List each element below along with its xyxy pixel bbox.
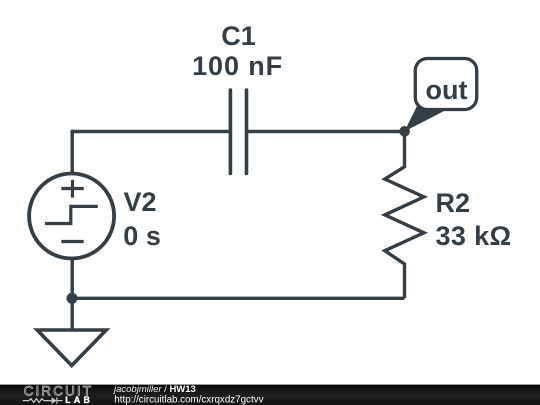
svg-text:V2: V2: [124, 187, 157, 217]
svg-text:out: out: [426, 75, 468, 105]
svg-text:R2: R2: [436, 188, 471, 218]
svg-text:C1: C1: [221, 21, 256, 51]
svg-text:100 nF: 100 nF: [192, 51, 283, 81]
svg-text:jacobjmiller / HW13: jacobjmiller / HW13: [112, 384, 196, 395]
svg-text:33 kΩ: 33 kΩ: [436, 221, 512, 251]
svg-text:LAB: LAB: [65, 395, 93, 405]
svg-text:http://circuitlab.com/cxrqxdz7: http://circuitlab.com/cxrqxdz7gctvv: [114, 394, 263, 405]
svg-text:0 s: 0 s: [123, 221, 161, 251]
